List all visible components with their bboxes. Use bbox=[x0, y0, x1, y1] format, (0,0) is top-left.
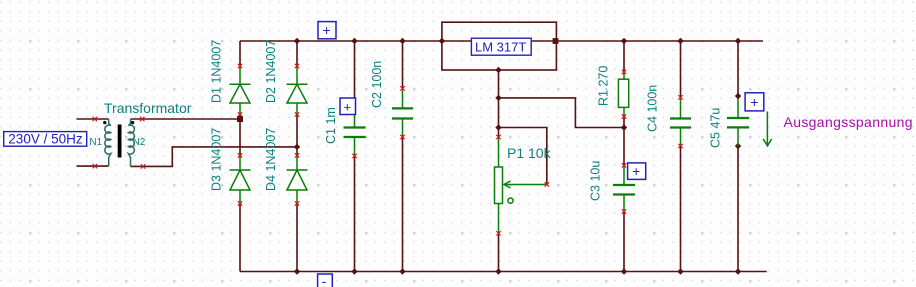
svg-text:Transformator: Transformator bbox=[104, 100, 192, 116]
pin mark C4 top bbox=[678, 95, 682, 99]
pin mark D3 top bbox=[238, 153, 242, 157]
node top rail C2 bbox=[399, 38, 405, 44]
wire C3 column bbox=[623, 128, 625, 166]
node bridge AC2 bbox=[294, 144, 300, 150]
svg-text:230V / 50Hz: 230V / 50Hz bbox=[8, 132, 83, 147]
svg-text:N2: N2 bbox=[133, 137, 146, 148]
potentiometer P1 bbox=[495, 137, 547, 233]
svg-text:D3 1N4007: D3 1N4007 bbox=[210, 128, 224, 191]
svg-text:D1 1N4007: D1 1N4007 bbox=[210, 40, 224, 103]
wire transformer primary bottom stub bbox=[77, 165, 109, 167]
wire R1 column bbox=[623, 41, 625, 72]
svg-text:C3 10u: C3 10u bbox=[589, 161, 603, 201]
wire adj branch to R1 bottom bbox=[499, 98, 625, 128]
svg-text:-: - bbox=[322, 273, 327, 287]
diode D2 bbox=[287, 66, 308, 114]
wire secondary top to bridge bbox=[131, 118, 241, 120]
svg-text:C5 47u: C5 47u bbox=[709, 108, 723, 148]
wire secondary bottom to bridge bbox=[131, 147, 298, 167]
node bottom rail C3 bbox=[621, 268, 627, 274]
label 230V 50Hz box bbox=[4, 132, 87, 147]
node C5 bottom terminal bbox=[735, 143, 741, 149]
node top rail C5 bbox=[735, 38, 741, 44]
capacitor C2 bbox=[392, 88, 413, 137]
pin mark D3 bottom bbox=[238, 201, 242, 205]
node top rail C1 bbox=[351, 38, 357, 44]
transformer TR1 bbox=[105, 119, 134, 166]
svg-text:Ausgangsspannung: Ausgangsspannung bbox=[784, 114, 913, 130]
pin mark P1 bottom bbox=[496, 231, 500, 235]
pin mark transformer secondary top bbox=[140, 117, 144, 121]
svg-text:R1 270: R1 270 bbox=[597, 66, 611, 106]
pin mark transformer primary bottom bbox=[93, 164, 97, 168]
svg-text:C4 100n: C4 100n bbox=[646, 85, 660, 132]
svg-text:D2 1N4007: D2 1N4007 bbox=[264, 40, 278, 103]
capacitor C5 electrolytic bbox=[727, 99, 749, 146]
secondary coil N2 bbox=[128, 119, 134, 166]
pin mark P1 top bbox=[496, 135, 500, 139]
wire D2 D4 column bbox=[296, 41, 298, 66]
node top rail R1 bbox=[621, 38, 627, 44]
pin mark C3 bottom bbox=[622, 209, 626, 213]
wire adj branch to P1 wiper bbox=[499, 128, 547, 185]
red pin markers bbox=[93, 64, 683, 236]
wire C1 column bbox=[354, 41, 356, 109]
node adj branch upper bbox=[495, 95, 501, 101]
P1 wiper arrow bbox=[505, 184, 547, 186]
node bottom rail C2 bbox=[399, 268, 405, 274]
node bridge AC1 square bbox=[237, 116, 243, 122]
transformer core bbox=[118, 125, 122, 158]
resistor R1 bbox=[618, 72, 628, 117]
pin mark C2 bottom bbox=[400, 135, 404, 139]
svg-text:P1 10k: P1 10k bbox=[507, 145, 552, 161]
wire LM317 adj pin down bbox=[498, 70, 500, 137]
pin mark D1 bottom bbox=[238, 112, 242, 116]
wire C4 column bbox=[680, 41, 682, 97]
pin mark transformer secondary bottom bbox=[141, 164, 145, 168]
node LM317 input pin bbox=[439, 38, 445, 44]
minus terminal bottom box bbox=[318, 273, 333, 287]
pin mark C3 top bbox=[622, 163, 626, 167]
svg-text:+: + bbox=[344, 99, 352, 114]
node adj branch lower bbox=[495, 124, 501, 130]
node R1 bottom C3 top bbox=[621, 124, 627, 130]
pin mark R1 bottom bbox=[622, 114, 626, 118]
node LM317 adj pin bbox=[495, 67, 501, 73]
node bottom rail C1 bbox=[351, 268, 357, 274]
op-amp regulator U1 LM317T box outline bbox=[442, 22, 557, 70]
label LM 317T box bbox=[471, 38, 531, 55]
diode D1 bbox=[230, 66, 251, 114]
diode D4 bbox=[287, 156, 308, 203]
node top rail C4 bbox=[677, 38, 683, 44]
pin mark R1 top bbox=[622, 70, 626, 74]
wire transformer primary top stub bbox=[77, 118, 109, 120]
capacitor C1 electrolytic bbox=[344, 109, 366, 156]
pin mark D1 top bbox=[238, 64, 242, 68]
pin mark D2 top bbox=[295, 64, 299, 68]
pin mark transformer primary top bbox=[93, 117, 97, 121]
svg-text:+: + bbox=[750, 94, 758, 110]
pin mark D2 bottom bbox=[295, 112, 299, 116]
svg-text:LM 317T: LM 317T bbox=[475, 39, 526, 54]
pin mark C4 bottom bbox=[678, 144, 682, 148]
pin mark C1 bottom bbox=[352, 154, 356, 158]
pin mark C2 top bbox=[400, 86, 404, 90]
pin mark D4 top bbox=[295, 153, 299, 157]
primary coil N1 bbox=[105, 119, 111, 166]
wire C2 column bbox=[402, 41, 404, 88]
transformer polarity dot N1 bbox=[103, 121, 106, 124]
node top rail D2 bbox=[294, 38, 300, 44]
output voltage arrow bbox=[763, 112, 771, 146]
node bottom rail C5 bbox=[735, 268, 741, 274]
svg-text:N1: N1 bbox=[89, 137, 102, 148]
svg-text:+: + bbox=[323, 22, 331, 38]
wire bottom rail bbox=[240, 271, 767, 273]
plus marker C3 box bbox=[628, 163, 646, 180]
wire top rail bbox=[240, 40, 763, 42]
capacitor C4 bbox=[670, 97, 691, 146]
wire C5 column bbox=[737, 41, 739, 99]
diode D3 bbox=[230, 156, 251, 203]
P1 turn circle bbox=[508, 198, 513, 203]
svg-text:C1 1m: C1 1m bbox=[324, 107, 338, 144]
node LM317 output pin square bbox=[553, 38, 559, 44]
plus marker C1 box bbox=[340, 98, 356, 115]
svg-text:C2 100n: C2 100n bbox=[370, 61, 384, 108]
node bottom rail D4 bbox=[294, 268, 300, 274]
plus terminal top box bbox=[318, 22, 336, 39]
wire P1 bottom to rail bbox=[498, 233, 500, 271]
node C5 top terminal bbox=[735, 93, 741, 99]
svg-text:+: + bbox=[632, 164, 640, 179]
node bottom rail P1 bbox=[495, 268, 501, 274]
transformer polarity dot N2 bbox=[131, 121, 134, 124]
node bottom rail C4 bbox=[677, 268, 683, 274]
pin mark D4 bottom bbox=[295, 201, 299, 205]
capacitor C3 electrolytic bbox=[613, 165, 635, 211]
svg-text:D4 1N4007: D4 1N4007 bbox=[264, 128, 278, 191]
wire D1 D3 column bbox=[239, 41, 241, 66]
plus marker C5 box bbox=[745, 93, 764, 111]
pin mark P1 wiper bbox=[545, 182, 549, 186]
